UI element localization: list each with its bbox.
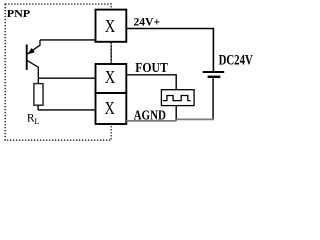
transistor Q1 collector diagonal bbox=[27, 61, 38, 84]
wire 24V+ net bbox=[126, 29, 213, 72]
wire AGND net to battery bbox=[176, 118, 214, 120]
svg-text:DC24V: DC24V bbox=[219, 52, 253, 68]
square wave symbol bbox=[163, 96, 191, 101]
isolation block X (24V+) bbox=[96, 10, 127, 42]
wire pulse generator to AGND net bbox=[175, 106, 177, 121]
battery BT1 DC24V long plate bbox=[203, 71, 225, 73]
wire resistor bottom lead bbox=[37, 105, 39, 110]
wire resistor bottom to AGND box bbox=[38, 109, 96, 111]
svg-text:24V+: 24V+ bbox=[134, 16, 161, 29]
svg-text:X: X bbox=[105, 69, 116, 88]
transistor Q1 emitter diagonal with arrow into base bbox=[28, 40, 40, 54]
svg-text:X: X bbox=[105, 100, 116, 119]
wire emitter to input box bbox=[40, 39, 96, 41]
wire collector node to FOUT box bbox=[38, 77, 96, 79]
battery BT1 short plate bbox=[208, 76, 221, 78]
wire FOUT net bbox=[126, 75, 176, 90]
divider between FOUT and AGND blocks bbox=[95, 92, 128, 94]
wire battery negative return bbox=[212, 78, 214, 120]
resistor RL body bbox=[34, 84, 43, 106]
transistor Q1 (PNP) base bar bbox=[26, 45, 28, 70]
svg-text:AGND: AGND bbox=[134, 108, 166, 123]
pulse generator box bbox=[161, 90, 194, 106]
svg-text:L: L bbox=[34, 117, 39, 126]
svg-text:PNP: PNP bbox=[7, 7, 30, 19]
dotted boundary segment between isolation blocks bbox=[110, 43, 112, 64]
wire AGND net under label bbox=[126, 120, 176, 122]
dotted enclosure PNP module boundary bbox=[5, 4, 111, 140]
svg-text:X: X bbox=[105, 18, 116, 37]
svg-text:FOUT: FOUT bbox=[135, 60, 168, 75]
isolation blocks X (FOUT / AGND) outer bbox=[96, 64, 127, 124]
